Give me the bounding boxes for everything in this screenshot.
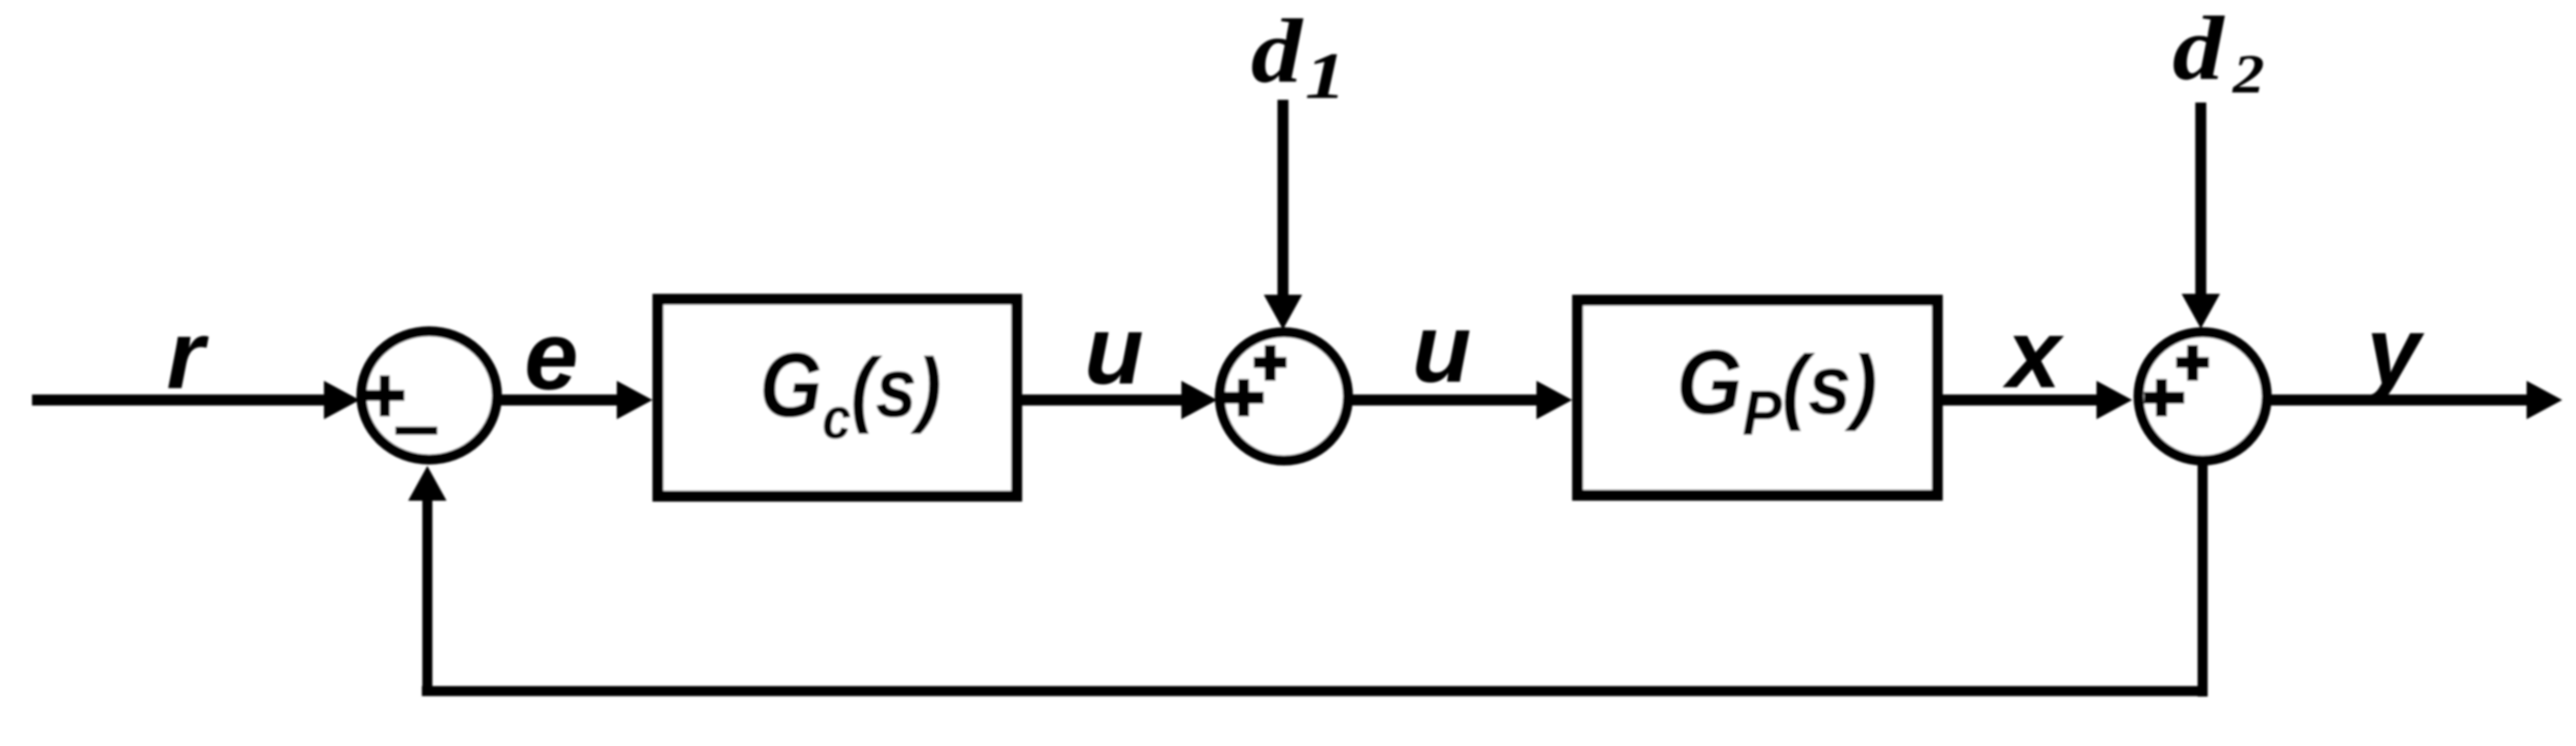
label Gc(s) [760,334,942,451]
wire d1 vertical [1277,100,1288,298]
svg-text:r: r [167,301,210,409]
arrowhead feedback into S1 [408,466,447,501]
svg-text:e: e [524,302,578,410]
summing junction S1 [361,331,497,459]
wire u from Gc to S2 [1022,395,1184,405]
wire y output [2270,395,2529,405]
svg-text:u: u [1412,295,1471,403]
svg-text:y: y [2362,297,2425,405]
wire r input [32,395,328,405]
label d1 [1251,0,1304,102]
svg-text:2: 2 [2232,43,2265,104]
label d2 [2172,0,2226,99]
feedback wire up into S1 [423,499,433,696]
wire e [497,395,620,405]
block Gp(s) [1578,300,1937,495]
arrowhead into summing junction S2 [1181,381,1217,419]
svg-text:d: d [2172,0,2226,99]
svg-text:1: 1 [1305,39,1346,113]
plus sign S3 top [2176,345,2209,381]
arrowhead d1 into S2 [1264,295,1302,330]
svg-text:d: d [1251,0,1304,102]
plus sign S3 left [2144,379,2184,416]
arrowhead into Gp block [1536,381,1572,419]
summing junction S2 [1220,332,1348,460]
svg-text:u: u [1084,297,1144,405]
svg-text:x: x [2002,300,2064,408]
block Gc(s) [658,299,1017,496]
arrowhead into summing junction S3 [2096,381,2132,419]
plus sign S1 [364,375,404,416]
arrowhead into Gc block [617,381,652,419]
summing junction S3 [2139,332,2267,460]
feedback wire bottom horizontal [422,687,2207,697]
feedback wire down from S3 [2198,458,2208,697]
arrowhead output y [2527,381,2562,419]
plus sign S2 left [1223,379,1264,416]
arrowhead d2 into S3 [2182,294,2220,329]
wire u from S2 to Gp [1352,395,1539,405]
plus sign S2 top [1254,345,1287,381]
wire x [1943,395,2099,405]
svg-text:Gc(s): Gc(s) [760,334,942,451]
arrowhead into summing junction S1 [324,381,360,419]
wire d2 vertical [2195,103,2206,297]
label Gp(s) [1676,332,1877,449]
minus sign S1 [395,427,437,435]
